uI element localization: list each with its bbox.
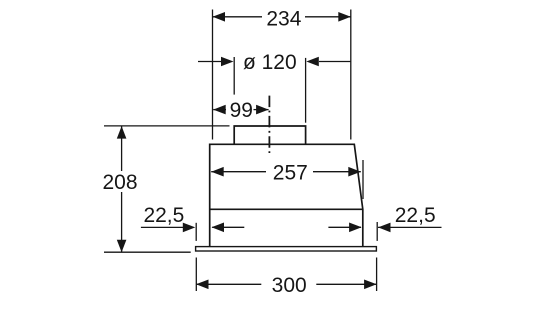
dim 208 top extension line: [104, 125, 230, 127]
svg-text:234: 234: [266, 8, 301, 31]
dim o120 right arrow line: [319, 61, 351, 63]
dim o120 left tick: [233, 57, 235, 95]
dim 99 left arrow: [213, 105, 226, 115]
dim 22,5 left leader line: [141, 226, 183, 228]
hood body outline: [210, 144, 363, 246]
dim 22,5 right inner arrow: [349, 223, 362, 233]
svg-text:208: 208: [102, 171, 137, 194]
dim 22,5 left tick: [195, 223, 197, 241]
dim 22,5 left inner arrow: [212, 223, 225, 233]
dim 22,5 right tick: [376, 222, 378, 241]
dim o120 left arrow: [221, 57, 234, 67]
dim 22,5 right inner arrow line: [328, 226, 361, 228]
dim 234 right extension line: [350, 10, 352, 140]
svg-text:257: 257: [273, 161, 308, 184]
dim 22,5 right leader line: [378, 226, 442, 228]
dim 300 left arrow: [196, 280, 209, 290]
mounting plate: [196, 247, 377, 251]
dim 22,5 left leader arrow: [183, 223, 196, 233]
dim 234 left extension line: [212, 10, 214, 140]
body separator line: [210, 208, 363, 210]
dim o120 right arrow: [306, 57, 319, 67]
dim 257 right arrow: [348, 167, 361, 177]
dim 300 line: [196, 283, 377, 285]
svg-text:99: 99: [230, 99, 253, 122]
dim 208 line: [121, 126, 123, 252]
svg-text:300: 300: [272, 274, 307, 297]
dim 234 left arrow: [213, 12, 226, 22]
dim 99 left arrow line: [213, 109, 226, 111]
dim 22,5 left inner arrow line: [212, 226, 244, 228]
dim 234 line: [213, 16, 351, 18]
dim 300 right arrow: [364, 280, 377, 290]
dim 234 right arrow: [338, 12, 351, 22]
dim 208 up arrow: [117, 126, 127, 139]
svg-text:ø 120: ø 120: [243, 51, 297, 74]
svg-text:22,5: 22,5: [395, 204, 436, 227]
dim 208 down arrow: [117, 240, 127, 253]
dim 99 right arrow line: [254, 109, 269, 111]
dim 257 line: [211, 171, 361, 173]
duct collar: [234, 126, 305, 144]
dim o120 left arrow line: [198, 61, 222, 63]
dim 22,5 right leader arrow: [378, 223, 391, 233]
dim 300 right extension line: [376, 258, 378, 292]
dim 208 bottom extension line: [104, 251, 191, 253]
dim 257 right tick: [362, 160, 364, 199]
dim 257 left arrow: [211, 167, 224, 177]
svg-text:22,5: 22,5: [143, 204, 184, 227]
dim 300 left extension line: [195, 258, 197, 292]
centerline: [268, 96, 270, 155]
dim o120 right tick: [305, 58, 307, 123]
dim 99 right arrow: [256, 105, 269, 115]
